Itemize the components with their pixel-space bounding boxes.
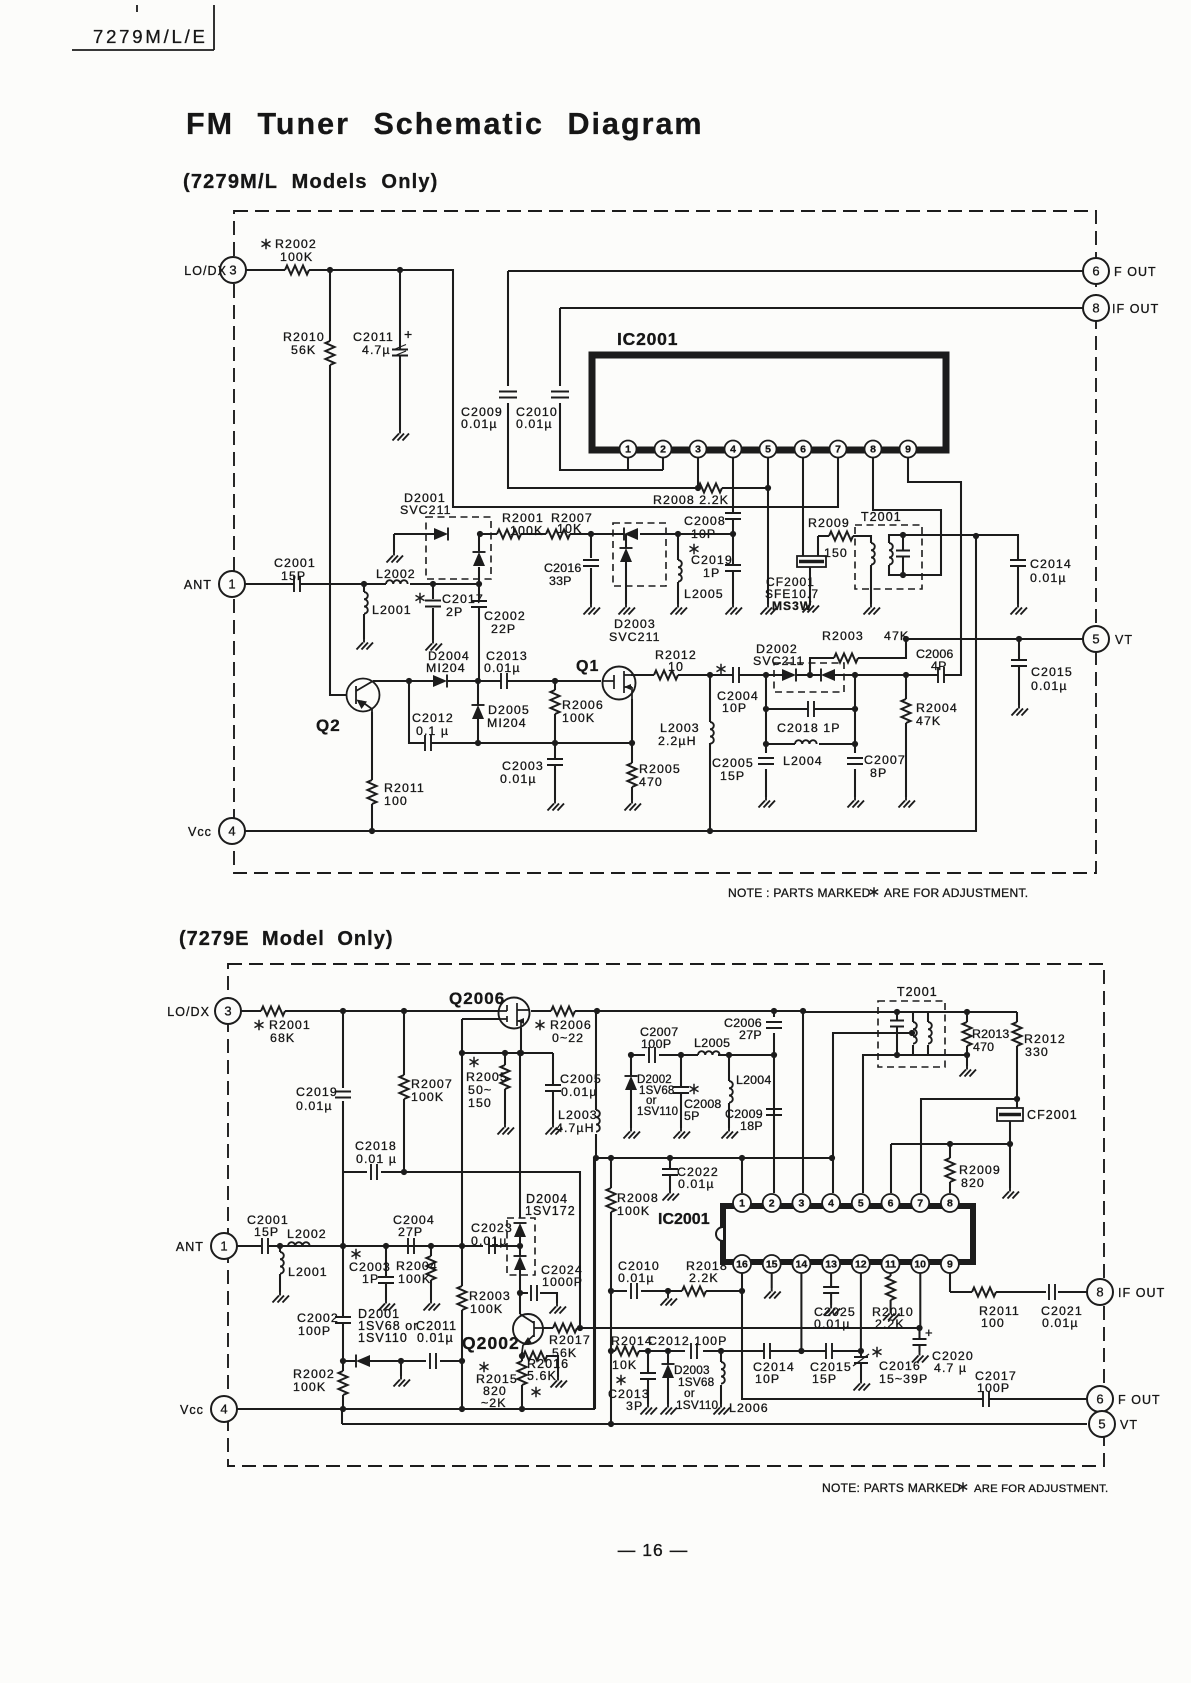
capacitor C2014 E [764, 1343, 770, 1359]
svg-text:2: 2 [660, 444, 666, 456]
wire R2007 column E [403, 1011, 405, 1172]
svg-text:47K: 47K [916, 714, 941, 728]
capacitor C2015 column [1018, 639, 1020, 705]
ground under T2001 [864, 604, 881, 615]
svg-text:C2001: C2001 [274, 556, 316, 570]
capacitor C2005 [758, 758, 774, 764]
inductor L2003 E [596, 1110, 600, 1132]
wire LO/DX row right portion C2006 column [773, 1011, 775, 1193]
inductor L2001 column [363, 584, 365, 639]
svg-text:R2008 2.2K: R2008 2.2K [653, 493, 729, 507]
terminal 6 F OUT [1083, 258, 1109, 284]
resistor R2008 [698, 484, 722, 493]
svg-text:100: 100 [981, 1316, 1005, 1330]
diode D2004 [433, 675, 447, 687]
svg-text:R2003: R2003 [822, 629, 864, 643]
svg-text:3: 3 [695, 444, 701, 456]
ground under C2007 [848, 797, 865, 808]
svg-text:R2005: R2005 [639, 762, 681, 776]
svg-text:IF OUT: IF OUT [1118, 1286, 1165, 1300]
svg-text:0.01µ: 0.01µ [471, 1234, 508, 1248]
svg-text:5.6K: 5.6K [527, 1369, 557, 1383]
svg-text:50~: 50~ [468, 1083, 492, 1097]
ground under L2001 [357, 639, 374, 650]
capacitor C2010 E [631, 1283, 637, 1299]
ground under C2011 [393, 430, 410, 441]
svg-text:5: 5 [765, 444, 771, 456]
svg-text:4: 4 [228, 824, 235, 839]
diode D2001b vertical [478, 534, 480, 584]
svg-text:15P: 15P [254, 1225, 279, 1239]
svg-text:100K: 100K [411, 1090, 444, 1104]
resistor R2011 column [371, 712, 373, 831]
svg-text:0.01µ: 0.01µ [417, 1331, 454, 1345]
svg-text:R2001: R2001 [269, 1018, 311, 1032]
capacitor C2006 [938, 667, 944, 683]
svg-text:4: 4 [828, 1198, 834, 1210]
wire R2010 column to Q2 base [330, 270, 347, 695]
wire C2011 column [399, 270, 401, 430]
capacitor C2001 [294, 576, 300, 592]
svg-text:100P: 100P [298, 1324, 331, 1338]
svg-text:ARE FOR ADJUSTMENT.: ARE FOR ADJUSTMENT. [974, 1483, 1108, 1495]
svg-text:33P: 33P [549, 574, 572, 588]
wire VT row E [342, 1423, 1087, 1425]
capacitor C2020 [913, 1339, 927, 1345]
wire pin3 stub [697, 458, 699, 488]
svg-text:8P: 8P [870, 766, 887, 780]
resistor R2008 E column [610, 1158, 612, 1424]
terminal 5 VT [1083, 626, 1109, 652]
wire pin16 column to F OUT [742, 1158, 1087, 1399]
svg-text:8: 8 [870, 444, 876, 456]
svg-text:Vcc: Vcc [180, 1403, 204, 1417]
inductor L2003 column [709, 675, 711, 831]
svg-text:R2009: R2009 [959, 1163, 1001, 1177]
svg-text:4.7 µ: 4.7 µ [934, 1361, 967, 1375]
svg-text:C2008: C2008 [684, 514, 726, 528]
svg-text:27P: 27P [398, 1225, 423, 1239]
inductor L2004 E column [728, 1055, 730, 1128]
svg-text:C2016: C2016 [879, 1359, 921, 1373]
svg-text:IC2001: IC2001 [658, 1211, 710, 1228]
capacitor C2024 [520, 1293, 557, 1303]
svg-text:0.01µ: 0.01µ [500, 772, 537, 786]
wire CF2001 output row [891, 1121, 1010, 1193]
wire tuning row R2001 R2007 [480, 533, 733, 535]
wire LO/DX row E [241, 1011, 878, 1193]
svg-text:R2011: R2011 [384, 781, 425, 795]
svg-text:0.01µ: 0.01µ [1042, 1316, 1079, 1330]
svg-text:SVC211: SVC211 [609, 630, 661, 644]
svg-text:4.7µ: 4.7µ [362, 343, 391, 357]
transformer T2001 E dashed box [878, 1001, 945, 1067]
terminal 8 IF OUT [1083, 295, 1109, 321]
capacitor C2004 E [408, 1238, 414, 1254]
svg-text:L2002: L2002 [376, 567, 416, 581]
resistor R2005 column [631, 743, 633, 800]
capacitor C2007 E [649, 1047, 655, 1063]
wire D2001 row right C2011 [401, 1361, 462, 1376]
resistor R2013 column [966, 1012, 968, 1066]
svg-text:0.01µ: 0.01µ [1030, 571, 1067, 585]
capacitor C2017 column [432, 584, 434, 640]
ground under pin5 [761, 604, 778, 615]
diode D2003a [624, 528, 638, 540]
resistor R2009 and wire [818, 536, 856, 556]
ground under R2004 [899, 797, 916, 808]
wire pin15 ground [771, 1273, 773, 1288]
svg-text:MI204: MI204 [426, 661, 466, 675]
wire pin10 column C2020 [918, 1273, 921, 1352]
wire D2002 center to R2003 [809, 663, 811, 675]
wire Q2006 source bar and R2005 [462, 1019, 553, 1246]
svg-text:0.01µ: 0.01µ [678, 1177, 715, 1191]
diode D2002 E column [630, 1055, 632, 1128]
svg-text:C2007: C2007 [864, 753, 906, 767]
T2001 internal capacitor [902, 535, 904, 575]
ground under R2005 E [498, 1124, 515, 1135]
T2001 primary winding [856, 536, 871, 604]
svg-text:+: + [404, 326, 413, 342]
wire Q2002 collector row R2017 [543, 1327, 920, 1329]
svg-text:CF2001: CF2001 [1027, 1108, 1078, 1122]
resistor R2004 E column [430, 1246, 432, 1300]
svg-text:6: 6 [1092, 264, 1099, 279]
svg-text:2.2µH: 2.2µH [658, 734, 697, 748]
svg-text:Q1: Q1 [576, 658, 599, 675]
svg-text:14: 14 [796, 1259, 808, 1271]
svg-text:5: 5 [1092, 632, 1099, 647]
T2001 E secondary coil [928, 1022, 932, 1044]
svg-text:L2004: L2004 [783, 754, 823, 768]
capacitor C2006 E [766, 1022, 782, 1028]
svg-text:R2004: R2004 [396, 1259, 438, 1273]
wire ANT row E [237, 1245, 520, 1247]
varactor D2003 dashed box [613, 523, 666, 586]
ground under C2003 [548, 800, 565, 811]
svg-text:0.01µ: 0.01µ [516, 417, 553, 431]
svg-text:0.01µ: 0.01µ [814, 1317, 851, 1331]
resistor R2006 column [554, 681, 556, 743]
svg-text:T2001: T2001 [861, 510, 902, 524]
transistor Q2002 [513, 1314, 543, 1344]
svg-text:~2K: ~2K [481, 1396, 507, 1410]
wire F OUT line and C2009 column [508, 271, 1083, 488]
svg-text:L2005: L2005 [684, 587, 724, 601]
ground under CF2001 [803, 602, 820, 613]
capacitor C2004 [733, 667, 739, 683]
schematic 2 dashed border [228, 964, 1104, 1466]
ground under C2005 E [546, 1124, 563, 1135]
capacitor C2018 [808, 701, 814, 717]
svg-text:IF OUT: IF OUT [1112, 302, 1159, 316]
svg-text:13: 13 [825, 1259, 837, 1271]
svg-text:L2003: L2003 [558, 1108, 598, 1122]
resistor R2001 E [261, 1007, 285, 1016]
svg-text:150: 150 [468, 1096, 492, 1110]
svg-text:Vcc: Vcc [188, 825, 212, 839]
resistor R2014 [615, 1347, 639, 1356]
svg-text:7279M/L/E: 7279M/L/E [93, 26, 208, 47]
svg-text:SVC211: SVC211 [753, 654, 805, 668]
svg-text:0.01µ: 0.01µ [296, 1099, 333, 1113]
svg-text:ARE FOR ADJUSTMENT.: ARE FOR ADJUSTMENT. [884, 886, 1028, 900]
ground mid D2001 row [394, 1376, 411, 1387]
svg-text:C2014: C2014 [1030, 557, 1072, 571]
svg-text:D2005: D2005 [488, 703, 530, 717]
wire R2014 row [611, 1350, 861, 1352]
svg-text:1000P: 1000P [542, 1275, 583, 1289]
terminal 3 LO/DX E [215, 998, 241, 1024]
svg-text:R2013: R2013 [972, 1027, 1010, 1041]
wire T2001 output row to C2014 [903, 535, 1018, 604]
wire C2018 row E [343, 1172, 580, 1325]
capacitor C2011 E [430, 1353, 436, 1369]
capacitor C2016 column [590, 534, 592, 604]
svg-text:L2001: L2001 [288, 1265, 328, 1279]
svg-text:100P: 100P [977, 1381, 1010, 1395]
svg-text:100K: 100K [617, 1204, 650, 1218]
svg-text:470: 470 [973, 1040, 994, 1054]
svg-text:5: 5 [858, 1198, 864, 1210]
wire C2019 long column E [342, 1011, 343, 1424]
capacitor C2023 [489, 1238, 495, 1254]
capacitor C2019 [725, 565, 741, 571]
svg-text:LO/DX: LO/DX [184, 264, 227, 278]
ground under R2016 [551, 1377, 568, 1388]
svg-text:L2006: L2006 [729, 1401, 769, 1415]
svg-text:C2003: C2003 [502, 759, 544, 773]
capacitor C2010 [551, 392, 569, 398]
svg-text:18P: 18P [740, 1119, 763, 1133]
svg-text:9: 9 [947, 1259, 953, 1271]
terminal 5 VT E [1089, 1411, 1115, 1437]
svg-text:L2001: L2001 [372, 603, 412, 617]
wire pin7 branch [921, 1099, 1017, 1193]
svg-text:3: 3 [798, 1198, 804, 1210]
wire L2003 column E [595, 1011, 597, 1158]
svg-text:IC2001: IC2001 [617, 329, 678, 349]
svg-text:2: 2 [769, 1198, 775, 1210]
capacitor C2003 E column [385, 1246, 387, 1300]
svg-text:R2006: R2006 [562, 698, 604, 712]
capacitor C2014 [1010, 560, 1026, 566]
capacitor C2019 E [335, 1092, 351, 1098]
svg-text:3P: 3P [626, 1399, 643, 1413]
svg-text:C2005: C2005 [712, 756, 754, 770]
wire pin5 column to ground [767, 458, 769, 604]
svg-text:330: 330 [1025, 1045, 1049, 1059]
capacitor C2008 E column [680, 1055, 682, 1128]
svg-text:0.01µ: 0.01µ [461, 417, 498, 431]
svg-text:MI204: MI204 [487, 716, 527, 730]
diode D2003 E column [667, 1351, 669, 1404]
inductor L2001 E column [279, 1246, 281, 1292]
svg-text:22P: 22P [491, 622, 516, 636]
inductor L2005 E [698, 1051, 720, 1055]
svg-text:R2014: R2014 [611, 1334, 653, 1348]
svg-text:VT: VT [1120, 1418, 1138, 1432]
svg-text:4: 4 [730, 444, 736, 456]
ground under D2003 [619, 604, 636, 615]
varactor D2001 dashed box [426, 517, 491, 579]
svg-text:C2017: C2017 [442, 592, 484, 606]
transistor Q2006 [499, 998, 530, 1029]
resistor R2005 E [501, 1065, 510, 1089]
svg-text:Q2: Q2 [316, 716, 341, 735]
diode D2004a [514, 1223, 526, 1237]
capacitor C2007 [847, 758, 863, 764]
svg-text:6: 6 [888, 1198, 894, 1210]
wire pin9 column to IF OUT [950, 1273, 1087, 1292]
ground under R2005 [625, 800, 642, 811]
svg-text:15P: 15P [281, 569, 306, 583]
T2001 E primary cap [878, 1012, 929, 1055]
ceramic filter CF2001 E [997, 1108, 1023, 1121]
svg-text:R2004: R2004 [916, 701, 958, 715]
terminal 1 ANT E [211, 1233, 237, 1259]
svg-text:4P: 4P [931, 659, 947, 673]
svg-text:NOTE: PARTS MARKED: NOTE: PARTS MARKED [822, 1481, 961, 1495]
svg-text:C2015: C2015 [1031, 665, 1073, 679]
ground under C2025 [824, 1305, 841, 1316]
svg-text:4: 4 [220, 1402, 227, 1417]
wire pin9 link to C2006 [908, 458, 961, 675]
svg-text:R2007: R2007 [411, 1077, 453, 1091]
wire C2022 column [669, 1158, 671, 1190]
svg-text:T2001: T2001 [897, 985, 938, 999]
terminal 3 LO/DX [220, 257, 246, 283]
capacitor C2015 E [826, 1343, 832, 1359]
trimmer capacitor C2016 E [860, 1351, 862, 1380]
ground under C2003 E [379, 1300, 396, 1311]
svg-text:6: 6 [800, 444, 806, 456]
ground under R2013 [960, 1066, 977, 1077]
wire L2005 row E [631, 1054, 774, 1056]
svg-text:470: 470 [639, 775, 663, 789]
svg-text:C2011: C2011 [353, 330, 394, 344]
svg-text:C2019: C2019 [691, 553, 733, 567]
ground under CF2001 E [1003, 1188, 1020, 1199]
diode D2001 E row [343, 1360, 401, 1362]
terminal 8 IF OUT E [1087, 1279, 1113, 1305]
ground under L2005 [671, 604, 688, 615]
svg-text:F OUT: F OUT [1114, 265, 1157, 279]
IC2001 pins 1-9 [620, 441, 637, 458]
capacitor C2017 E [983, 1391, 989, 1407]
svg-text:15P: 15P [720, 769, 745, 783]
svg-text:100P: 100P [641, 1037, 672, 1051]
svg-text:3: 3 [224, 1004, 231, 1019]
svg-text:ANT: ANT [184, 578, 212, 592]
resistor R2012 [654, 671, 678, 680]
inductor L2002 [386, 580, 408, 584]
varactor D2004 dashed box [507, 1218, 535, 1275]
svg-text:L2003: L2003 [660, 721, 700, 735]
svg-text:R2002: R2002 [293, 1367, 335, 1381]
svg-text:VT: VT [1115, 633, 1133, 647]
wire Q2002 emitter column [521, 1352, 523, 1409]
resistor R2011 E [972, 1288, 996, 1297]
svg-text:5: 5 [1098, 1417, 1105, 1432]
wire Vcc row [245, 536, 976, 831]
wire VT row [906, 638, 1083, 640]
svg-text:1SV110: 1SV110 [676, 1398, 719, 1412]
svg-text:100K: 100K [470, 1302, 503, 1316]
svg-text:3: 3 [229, 263, 236, 278]
ground under R2010 E [883, 1310, 900, 1321]
resistor R2009 E column [949, 1144, 951, 1193]
ceramic filter CF2001 [797, 556, 826, 567]
svg-text:15: 15 [766, 1259, 778, 1271]
svg-text:1SV68: 1SV68 [639, 1085, 675, 1097]
wire D2001 ground stub [394, 534, 434, 552]
wire Q2 collector row [373, 680, 601, 682]
svg-text:1SV172: 1SV172 [525, 1204, 576, 1218]
resistor R2012 column [1016, 1012, 1018, 1108]
ground under R2004 E [424, 1300, 441, 1311]
svg-text:12: 12 [855, 1259, 867, 1271]
varactor D2002 dashed box [774, 663, 844, 692]
inductor L2002 E [288, 1242, 310, 1246]
svg-text:8: 8 [947, 1198, 953, 1210]
transistor Q2 [347, 679, 380, 712]
ground under C2019 [726, 604, 743, 615]
svg-text:C2018 1P: C2018 1P [777, 721, 841, 735]
svg-text:R2001: R2001 [502, 511, 544, 525]
wire pin6 column to CF2001 [802, 458, 804, 556]
terminal 1 ANT [219, 571, 245, 597]
svg-text:8: 8 [1092, 301, 1099, 316]
transformer T2001 dashed box [855, 525, 922, 589]
svg-text:FM Tuner Schematic Diagram: FM Tuner Schematic Diagram [186, 107, 704, 141]
terminal 4 Vcc E [211, 1396, 237, 1422]
IC U IC2001 E [723, 1206, 973, 1262]
transistor Q1 [603, 667, 636, 700]
svg-text:6: 6 [1096, 1392, 1103, 1407]
svg-text:9: 9 [905, 444, 911, 456]
svg-text:8: 8 [1096, 1285, 1103, 1300]
capacitor C2021 [1049, 1284, 1055, 1300]
svg-text:56K: 56K [291, 343, 316, 357]
svg-text:2.2K: 2.2K [689, 1271, 719, 1285]
ground under C2016 [584, 604, 601, 615]
svg-text:R2012: R2012 [1024, 1032, 1066, 1046]
capacitor C2013 [501, 673, 507, 689]
svg-text:C2002: C2002 [297, 1311, 339, 1325]
svg-text:1: 1 [625, 444, 631, 456]
svg-text:C2016: C2016 [544, 561, 582, 575]
svg-text:820: 820 [961, 1176, 985, 1190]
svg-text:100K: 100K [510, 524, 543, 538]
wire LO/DX net to pin7 [246, 270, 838, 507]
capacitor C2012 E [691, 1343, 697, 1359]
inductor L2004 [795, 740, 817, 744]
capacitor C2009 E [766, 1109, 782, 1115]
resistor R2007 E [400, 1075, 409, 1099]
svg-text:100K: 100K [293, 1380, 326, 1394]
svg-text:68K: 68K [270, 1031, 295, 1045]
wire D2004 column connections [519, 1237, 521, 1314]
resistor R2007 [546, 530, 570, 539]
ground under L2004 E [722, 1128, 739, 1139]
svg-text:R2002: R2002 [275, 237, 317, 251]
diode D2002a [782, 669, 796, 681]
svg-text:C2018: C2018 [355, 1139, 397, 1153]
svg-text:0.1 µ: 0.1 µ [416, 724, 449, 738]
ground under C2005 [759, 797, 776, 808]
